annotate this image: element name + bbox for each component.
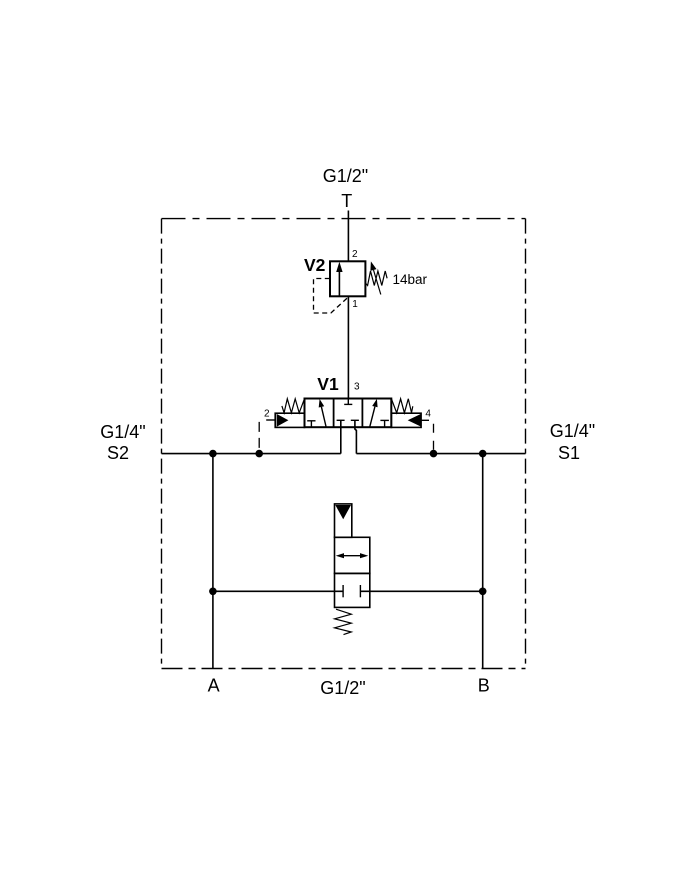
V2 flow arrow — [336, 262, 342, 297]
V1 left box arrow — [319, 399, 326, 427]
wire T port to V2 — [347, 211, 349, 262]
V1 right spring — [391, 399, 412, 413]
V1 left pilot dashed line — [258, 422, 260, 454]
svg-text:G1/2": G1/2" — [320, 678, 365, 698]
svg-text:G1/2": G1/2" — [323, 166, 368, 186]
shuttle valve upper position box (double arrow) — [335, 537, 370, 573]
svg-text:1: 1 — [352, 299, 358, 310]
port label G1/4" S1 — [550, 421, 595, 463]
V2 adjustable spring — [365, 261, 387, 294]
wire S1 line (right) — [356, 453, 525, 455]
shuttle valve lower position box (blocked) — [335, 573, 370, 607]
svg-text:S1: S1 — [558, 443, 580, 463]
wire V1 right bottom port down — [355, 420, 357, 453]
svg-text:2: 2 — [264, 408, 270, 419]
svg-text:A: A — [208, 676, 220, 696]
directional valve V1 body (3 positions) — [305, 399, 392, 428]
svg-text:V2: V2 — [304, 255, 326, 275]
svg-text:G1/4": G1/4" — [550, 421, 595, 441]
V1 left pilot actuator — [266, 413, 304, 427]
wire V1 left bottom port down — [340, 420, 342, 453]
svg-text:14bar: 14bar — [393, 272, 428, 287]
svg-text:V1: V1 — [317, 374, 339, 394]
wire B branch (vertical) — [482, 454, 484, 669]
V1 left box blocked port — [307, 421, 315, 427]
wire S2 line (left) — [162, 453, 341, 455]
port label G1/4" S2 — [100, 422, 145, 463]
svg-text:G1/4": G1/4" — [100, 422, 145, 442]
node junction dots on S line — [209, 450, 486, 458]
node junction dots on lower line — [209, 588, 486, 596]
port label G1/2" T (top) — [323, 166, 368, 211]
svg-text:B: B — [478, 676, 490, 696]
svg-text:2: 2 — [352, 249, 358, 260]
V1 right box arrow — [370, 399, 378, 427]
shuttle valve spring (bottom) — [335, 609, 352, 634]
svg-text:3: 3 — [354, 382, 360, 393]
V1 center box top blocked port — [344, 399, 352, 405]
wire A branch (vertical) — [212, 454, 214, 669]
wire lower cross line right — [360, 590, 482, 592]
V1 right box blocked port — [380, 420, 389, 427]
shuttle valve pilot head — [335, 504, 352, 537]
relief valve V2 body — [330, 261, 365, 296]
svg-text:T: T — [341, 191, 352, 211]
wire V2 to V1 (port 1 to port 3) — [347, 296, 349, 398]
V1 right pilot dashed line — [433, 424, 435, 454]
svg-text:S2: S2 — [107, 443, 129, 463]
V1 left spring — [282, 399, 305, 413]
svg-text:4: 4 — [425, 408, 431, 419]
wire lower cross line left — [213, 590, 343, 592]
V2 pilot line (dashed) — [314, 279, 348, 314]
V1 right pilot actuator — [391, 413, 429, 427]
V1 center box bottom blocked ports — [337, 419, 359, 421]
manifold boundary (dash-dot border) — [162, 219, 526, 669]
